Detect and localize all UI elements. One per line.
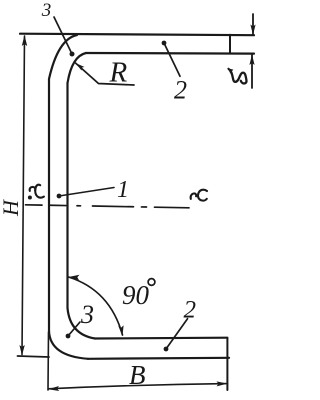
svg-text:90: 90 — [122, 280, 150, 310]
H bottom extension tick — [18, 356, 50, 357]
H dimension arrowhead bottom (down) — [19, 345, 24, 356]
90 arc arrowhead left — [69, 275, 80, 280]
bottom flange outer line — [88, 358, 229, 359]
leader dot bottom 3 — [66, 334, 71, 339]
leader dot bottom 2 — [164, 347, 169, 352]
bottom flange inner line — [95, 337, 227, 340]
top flange end edge — [229, 35, 231, 54]
B dimension line — [48, 384, 227, 389]
leader for bottom 2 — [166, 319, 188, 349]
label s (rotated) — [228, 68, 247, 83]
label x (right) — [191, 190, 207, 201]
B extension line left (web outer prolonged) — [47, 332, 50, 390]
inner top-left corner arc — [68, 53, 87, 83]
degree circle of 90 — [148, 279, 155, 286]
label x (left) — [30, 185, 44, 198]
leader for 1 — [59, 188, 114, 197]
leader dot 1 — [57, 194, 62, 199]
B dimension arrowhead right — [217, 381, 228, 386]
s arrowhead bottom (up) — [249, 55, 254, 66]
90 arc arrowhead down — [118, 325, 123, 336]
H dimension arrowhead top (up) — [22, 35, 27, 46]
R leader line with shelf — [76, 63, 135, 85]
top flange outer line (also extension line for H and s) — [20, 34, 254, 36]
centerline x-x (dash-dot) — [26, 205, 190, 208]
s dimension arrow line bottom — [251, 55, 253, 89]
svg-text:R: R — [109, 57, 128, 89]
leader for top 3 — [54, 17, 72, 54]
svg-text:B: B — [129, 360, 146, 390]
svg-text:2: 2 — [184, 297, 197, 324]
svg-text:1: 1 — [117, 177, 129, 203]
web inner line — [66, 83, 68, 308]
value label s (rotated script s) — [231, 72, 247, 84]
outer bottom-left corner arc — [49, 331, 88, 359]
leader for bottom 3 — [68, 322, 80, 336]
90 degree dimension arc — [69, 277, 123, 335]
svg-text:2: 2 — [174, 76, 187, 105]
leader dot top 3 — [70, 52, 75, 57]
s dimension arrow line top — [252, 14, 254, 35]
B dimension arrowhead left — [48, 386, 59, 391]
web outer line — [48, 79, 50, 331]
leader dot top 2 — [162, 41, 167, 46]
H dimension line — [22, 36, 25, 355]
inner bottom-left corner arc — [68, 308, 96, 339]
outer top-left corner arc — [49, 35, 77, 79]
bottom flange end edge (continues down as extension for B) — [226, 338, 228, 390]
blob of left x — [28, 196, 32, 200]
R leader arrowhead (up-left) — [76, 63, 85, 71]
svg-text:3: 3 — [41, 0, 52, 21]
svg-text:H: H — [0, 199, 23, 217]
top flange inner line (also extension for s) — [86, 52, 254, 55]
s arrowhead top (down) — [250, 25, 255, 36]
leader for top 2 — [164, 43, 180, 76]
svg-text:3: 3 — [80, 300, 94, 329]
